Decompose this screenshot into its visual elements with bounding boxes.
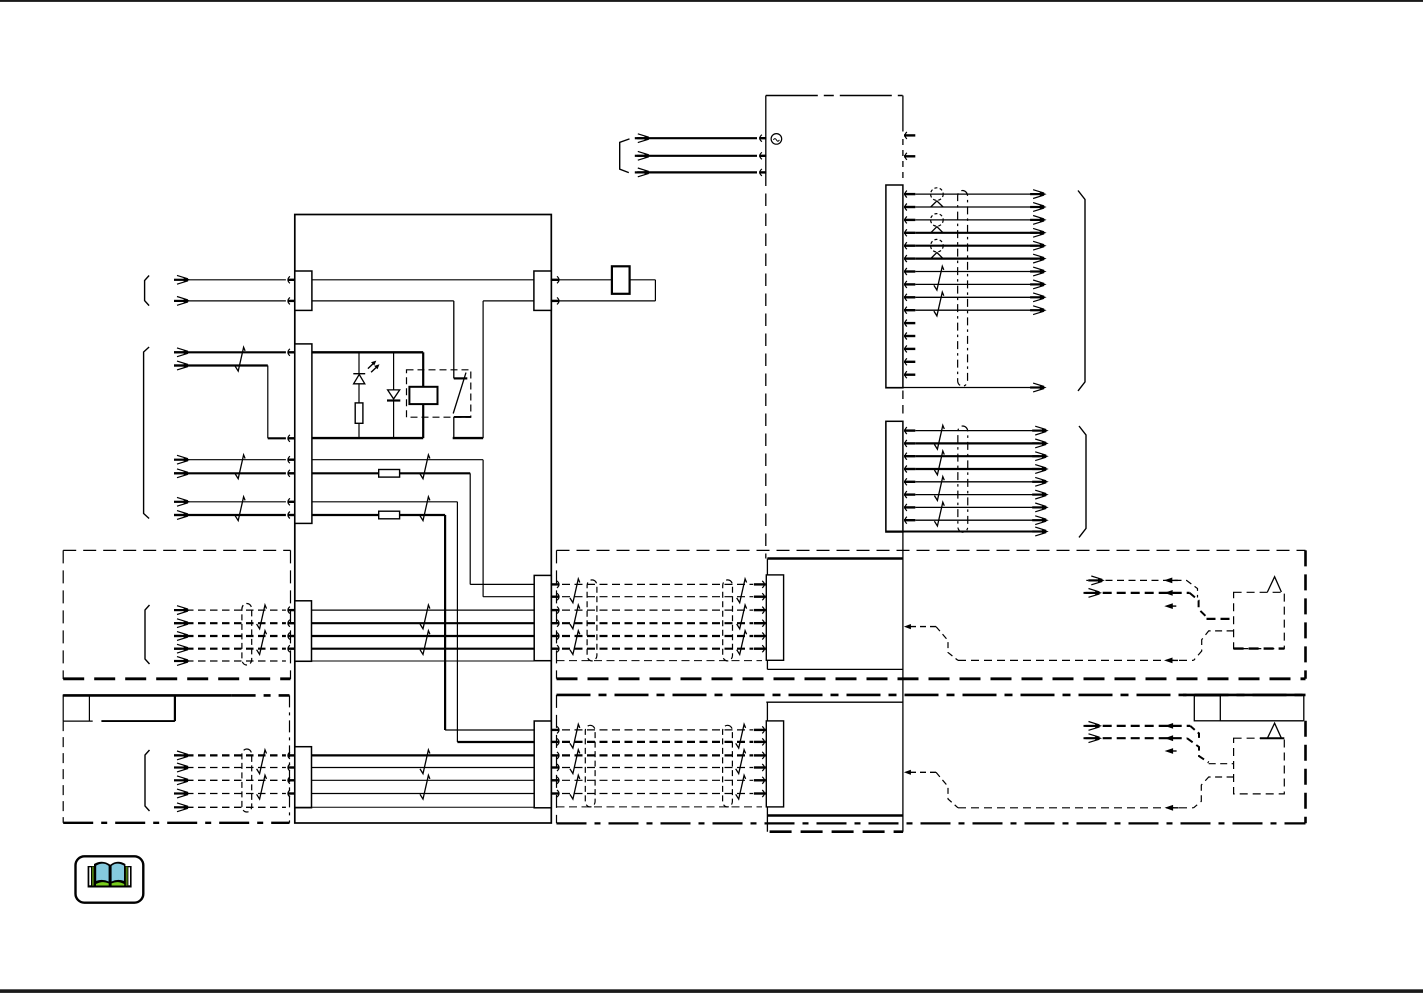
fuse F1 out	[630, 279, 656, 281]
middle unit left edge lower	[766, 702, 768, 832]
shield oval cable lower R	[723, 725, 733, 807]
lamp fan wire 7	[915, 271, 1037, 273]
wire pair1-1	[174, 279, 286, 281]
brace field low	[145, 750, 150, 811]
LED emission arrow 2	[371, 367, 377, 372]
rc upper wire A bend	[1187, 580, 1198, 597]
relay contact blade	[453, 373, 466, 414]
slash rows12	[420, 455, 430, 479]
lamp fan wire 1	[915, 193, 1037, 195]
slash fan2	[934, 502, 944, 526]
connector CNm2	[766, 721, 783, 807]
pin CN7-3	[557, 752, 559, 759]
slash low34	[420, 775, 430, 799]
rc lower exit wire	[1194, 777, 1234, 808]
slash cable upper L	[570, 631, 580, 655]
cable lower wire 6	[562, 793, 753, 795]
section boundary dashdot right	[557, 694, 1306, 697]
indicator lamp H1	[931, 188, 944, 201]
brace pair1	[145, 276, 150, 306]
tab bottom right	[101, 720, 174, 722]
section boundary solid segment over tab	[1183, 694, 1306, 697]
connector CN2	[295, 344, 312, 524]
wire pair3-2	[174, 472, 286, 474]
shield low inside	[295, 806, 534, 808]
right section left edge lower	[556, 695, 558, 823]
field wire mid-4	[174, 648, 286, 650]
shield oval field low	[242, 749, 252, 812]
diode branch lower	[393, 401, 395, 439]
field box lower-left top dashdot	[232, 694, 290, 697]
relay K1 coil feed	[422, 352, 424, 387]
relay contact top bar	[454, 377, 468, 379]
AC wire L	[637, 137, 757, 139]
connector CN1	[295, 271, 312, 310]
wire row4 left	[312, 514, 379, 516]
rc upper wire B mate arrow	[1164, 590, 1173, 596]
slash fan2	[934, 451, 944, 475]
cable upper wire 5	[562, 635, 753, 637]
brace field mid	[145, 605, 150, 664]
pin CNa-7	[905, 268, 907, 275]
slash fan910	[934, 292, 944, 316]
cable upper wire 4	[562, 622, 753, 624]
fan2 wire 5	[915, 481, 1039, 483]
shield oval cable upper R	[723, 580, 733, 661]
pin CNm2-5	[754, 779, 766, 781]
pin CN7-5	[557, 777, 559, 784]
LED emission arrow 1	[368, 363, 374, 368]
pin CNa-11	[905, 320, 907, 327]
CNa shield wire	[886, 387, 1038, 389]
pin CN1-1	[288, 276, 290, 283]
pin CNm1-2	[754, 596, 766, 598]
lamp fan wire 5	[915, 245, 1037, 247]
slash mid34	[420, 631, 430, 655]
rc upper stub arrow	[1164, 603, 1173, 609]
pin CN2-5	[288, 498, 290, 505]
wire pair2-2 drop	[267, 366, 269, 439]
unit1 right edge dashes	[902, 139, 904, 183]
pin CNa-9	[905, 294, 907, 301]
fan2 wire 8	[915, 519, 1039, 521]
slash fan78	[934, 266, 944, 290]
rc lower shield arrow	[1165, 805, 1174, 811]
slash field low12	[257, 750, 267, 774]
pin CNb-6	[905, 491, 907, 498]
field box upper-left left edge	[62, 550, 64, 679]
pin CN3-1	[288, 607, 290, 614]
field box upper-left top edge	[63, 549, 290, 551]
middle unit heavy top	[767, 557, 903, 560]
wire row2 left	[312, 472, 379, 474]
field box upper-left right edge	[290, 550, 292, 679]
rc upper wire B tail	[1084, 592, 1087, 594]
middle unit left edge upper	[766, 559, 768, 670]
lamp fan wire 8	[915, 283, 1037, 285]
wire low2	[312, 767, 535, 769]
rc upper exit wire	[1194, 631, 1234, 661]
pin CN4-2	[288, 764, 290, 771]
pin CNa-8	[905, 281, 907, 288]
connector CN5	[534, 271, 551, 310]
pin CN5-1	[557, 276, 559, 283]
unit1 edge pin out1	[905, 132, 907, 139]
unit1 left edge solid	[765, 96, 767, 174]
rc lower wire A tail	[1084, 725, 1087, 727]
LED branch lower	[358, 384, 360, 403]
wire CN1-2 to switch	[312, 300, 454, 302]
wire pair4-1	[174, 501, 286, 503]
rc lower right edge solid	[1303, 696, 1305, 721]
bottom boundary dashdot right	[557, 822, 1306, 824]
right section right edge heavy upper	[1304, 550, 1307, 678]
bracket CNa	[1078, 191, 1085, 391]
tab divider vertical	[88, 695, 90, 721]
rc lower entry wire	[1209, 763, 1234, 765]
AC wire N	[637, 155, 757, 157]
section boundary heavy dash right	[557, 677, 1306, 680]
connector CNa	[886, 185, 903, 388]
rc upper link from unit	[904, 624, 911, 629]
shield oval CNa	[958, 191, 968, 387]
field wire low-5	[174, 806, 286, 808]
field wire low-4	[174, 793, 286, 795]
rc upper wire A mate arrow	[1164, 578, 1173, 584]
fan2 wire 6	[915, 494, 1039, 496]
shield mid inside	[295, 660, 534, 662]
pin CNb-3	[905, 453, 907, 460]
rc lower wire A	[1086, 725, 1098, 727]
slash cable upper R	[737, 605, 747, 629]
wire row3 to CN7-2	[457, 741, 534, 743]
rc lower small box	[1194, 696, 1220, 721]
pin CNa-4	[905, 229, 907, 236]
slash cable lower L	[570, 750, 580, 774]
cable lower wire 1	[562, 729, 753, 731]
field wire low-1	[174, 754, 286, 756]
pin CNm1-6	[754, 648, 766, 650]
CNb shield wire	[886, 531, 1040, 533]
cable upper wire 3	[562, 609, 753, 611]
control board outline	[295, 215, 552, 824]
slash cable lower L	[570, 724, 580, 748]
pin CNa-2	[905, 204, 907, 211]
wire pair2-1	[174, 351, 286, 353]
rc lower wire B mate arrow	[1165, 735, 1174, 741]
pin CN2-6	[288, 512, 290, 519]
CNb shield left drop	[885, 421, 887, 531]
pin CNa-15	[905, 371, 907, 378]
pin CNa-12	[905, 333, 907, 340]
wire row2 to CN6-1	[470, 583, 534, 585]
relay contact lower lead	[453, 417, 455, 438]
pin CN4-3	[288, 777, 290, 784]
wire row4 right	[400, 514, 446, 516]
pin CNa-3	[905, 216, 907, 223]
AC source symbol	[771, 134, 782, 145]
slash cable lower R	[736, 750, 746, 774]
pin CN6-3	[557, 607, 559, 614]
connector CN7	[534, 721, 551, 808]
wire mid2	[312, 622, 535, 624]
wire pair2-2	[174, 364, 268, 366]
wire low1	[312, 754, 535, 756]
cable lower shield	[557, 806, 763, 808]
rc lower stub arrow	[1165, 748, 1174, 754]
pin CNb-5	[905, 478, 907, 485]
cable lower wire 5	[562, 779, 753, 781]
tab right edge	[174, 695, 176, 721]
pin CNm2-6	[754, 792, 766, 794]
opto bottom rail	[312, 437, 423, 439]
pin CNa-6	[905, 255, 907, 262]
lamp fan wire 6	[915, 258, 1037, 260]
rc lower wire A bend	[1190, 726, 1199, 742]
connector CNb	[886, 421, 903, 532]
wire row3	[312, 501, 458, 503]
pin CN4-1	[288, 752, 290, 759]
pin CNm1-5	[754, 635, 766, 637]
indicator lamp H3	[931, 239, 944, 252]
connector CNm1	[766, 575, 783, 660]
fan2 wire 7	[915, 506, 1039, 508]
pin AC-3	[760, 169, 762, 176]
diode D2 triangle	[388, 390, 400, 399]
pin CN4-4	[288, 790, 290, 797]
cable upper wire 6	[562, 648, 753, 650]
field box lower-left left edge solid	[62, 695, 64, 722]
pin CN3-3	[288, 633, 290, 640]
slash rows34	[420, 497, 430, 521]
unit1+unit2 right edge	[902, 532, 904, 832]
opto top rail	[312, 351, 423, 353]
cable upper wire 2	[562, 596, 753, 598]
middle unit dashed bottom	[770, 830, 904, 833]
wire mid3	[312, 635, 535, 637]
tab bottom left	[63, 720, 92, 722]
field box lower-left left edge dashed	[62, 721, 64, 823]
wire CN5-1 out	[559, 279, 612, 281]
shield oval cable lower L	[585, 725, 595, 807]
pin CNm2-2	[754, 741, 766, 743]
riser row2	[469, 473, 471, 584]
field box lower-left right edge	[289, 695, 291, 822]
slash cable lower L	[570, 775, 580, 799]
right section right edge heavy lower	[1304, 721, 1307, 823]
unit1 edge pin out2	[905, 153, 907, 160]
pin AC-1	[760, 135, 762, 142]
resistor R1	[355, 403, 363, 423]
slash pair2	[235, 347, 245, 371]
field wire mid-5	[174, 660, 286, 662]
wire mid4	[312, 648, 535, 650]
lamp fan wire 4	[915, 232, 1037, 234]
pin CN6-6	[557, 645, 559, 652]
slash mid12	[420, 605, 430, 629]
fan2 wire 1	[915, 430, 1039, 432]
pin CN7-6	[557, 790, 559, 797]
rc upper wire A tail	[1086, 579, 1089, 581]
book icon button	[76, 856, 144, 902]
pin CNm1-4	[754, 622, 766, 624]
unit1 left edge dashed	[765, 174, 767, 559]
remote controller B antenna	[1267, 723, 1281, 738]
pin CNb-2	[905, 440, 907, 447]
pin CN6-5	[557, 633, 559, 640]
switch return riser	[482, 301, 484, 438]
rc upper wire B bend	[1190, 593, 1207, 617]
field box lower-left top heavy	[63, 694, 231, 697]
rc upper entry wire	[1207, 618, 1234, 620]
LED D1 triangle	[354, 374, 365, 383]
page bottom border bar	[0, 989, 1423, 993]
pin CN5-2	[557, 297, 559, 304]
book icon	[88, 862, 132, 888]
relay contact bottom bar	[454, 416, 471, 418]
slash low12	[420, 750, 430, 774]
field wire mid-1	[174, 609, 286, 611]
unit1 top edge	[766, 95, 903, 97]
relay K1 coil return	[422, 404, 424, 438]
pin CN6-1	[557, 581, 559, 588]
rc upper shield run	[958, 659, 1194, 661]
pin CN3-4	[288, 645, 290, 652]
pin CNm1-1	[754, 583, 766, 585]
resistor R3	[379, 511, 400, 519]
riser row3	[456, 502, 458, 742]
pin CNb-7	[905, 504, 907, 511]
wire low3	[312, 779, 535, 781]
slash cable upper L	[570, 579, 580, 603]
pin CNa-13	[905, 345, 907, 352]
pin CNm2-1	[754, 729, 766, 731]
connector CN4	[295, 747, 312, 808]
slash cable upper R	[737, 631, 747, 655]
relay K1 dashed box	[407, 370, 471, 417]
pin CNm1-3	[754, 609, 766, 611]
rc upper wire A	[1088, 579, 1100, 581]
rc upper shield arrow	[1164, 658, 1173, 664]
middle unit sub-box divider	[767, 668, 903, 670]
lamp fan wire 10	[915, 309, 1037, 311]
middle unit heavy bottom	[767, 814, 903, 817]
unit1 right edge gap dash	[902, 391, 904, 420]
fuse loop return	[559, 300, 656, 302]
lamp fan wire 2	[915, 206, 1037, 208]
field wire low-3	[174, 779, 286, 781]
brace tall	[144, 347, 150, 519]
wire row4 to CN7-1	[445, 729, 534, 731]
wire mid1	[312, 609, 535, 611]
diode branch upper	[393, 353, 395, 391]
pin CNa-5	[905, 242, 907, 249]
field wire mid-2	[174, 622, 286, 624]
slash pair4	[235, 497, 245, 521]
wire row2 right	[400, 472, 471, 474]
bracket CNb	[1079, 426, 1086, 537]
cable lower wire 3	[562, 754, 753, 756]
resistor R2	[379, 470, 400, 478]
fuse F1	[612, 266, 630, 294]
switch bottom link	[453, 437, 483, 439]
wire pair4-2	[174, 514, 286, 516]
indicator lamp H2	[931, 214, 944, 227]
cable lower wire 4	[562, 767, 753, 769]
pin CN2-3	[288, 456, 290, 463]
rc lower shelf line	[1220, 720, 1304, 722]
remote controller B box	[1234, 738, 1285, 794]
riser row1	[482, 460, 484, 597]
relay K1 coil	[409, 387, 437, 404]
cable upper shield	[557, 660, 763, 662]
rc lower link from unit	[904, 770, 911, 775]
rc lower wire B tail	[1084, 737, 1087, 739]
lamp fan wire 9	[915, 296, 1037, 298]
wire pair2-2 run	[268, 437, 286, 439]
LED branch upper	[358, 353, 360, 374]
cable upper wire 1	[562, 583, 753, 585]
rc lower wire B bend	[1187, 738, 1209, 762]
fan2 wire 3	[915, 455, 1039, 457]
rc lower wire B	[1086, 737, 1098, 739]
wire low4	[312, 793, 535, 795]
slash cable lower R	[736, 775, 746, 799]
wire switch return	[483, 300, 534, 302]
pin CNa-14	[905, 358, 907, 365]
pin CNb-1	[905, 427, 907, 434]
remote controller A heavy bottom	[1234, 647, 1285, 649]
connector CN3	[295, 601, 312, 662]
brace AC	[620, 139, 630, 173]
pin CN7-2	[557, 738, 559, 745]
pin CN1-2	[288, 297, 290, 304]
pin CNb-8	[905, 517, 907, 524]
section boundary heavy dash left	[63, 677, 290, 680]
riser row4	[444, 515, 446, 730]
fan2 wire 4	[915, 468, 1039, 470]
wire row1 to CN6-2	[483, 596, 534, 598]
wire pair3-1	[174, 459, 286, 461]
pin CNb-4	[905, 466, 907, 473]
shield oval field mid	[242, 604, 252, 666]
shield oval cable upper L	[587, 580, 597, 661]
pin CNa-1	[905, 191, 907, 198]
rc lower shield run	[958, 807, 1194, 809]
slash cable upper L	[570, 605, 580, 629]
pin CN6-4	[557, 620, 559, 627]
wire pair1-2	[174, 300, 286, 302]
shield oval CNb	[958, 426, 968, 532]
right section left edge upper	[556, 550, 558, 678]
diode D2 cathode bar	[387, 399, 400, 401]
fan2 wire 2	[915, 442, 1039, 444]
LED D1 cathode bar	[353, 373, 365, 375]
pin CN2-2	[288, 435, 290, 442]
rc lower wire A mate arrow	[1165, 723, 1174, 729]
pin AC-2	[760, 152, 762, 159]
right section top dashed	[557, 549, 1306, 551]
wire CN1-1 to CN5-1	[312, 279, 534, 281]
slash field mid12	[257, 605, 267, 629]
page top border bar	[0, 0, 1423, 2]
AC wire E	[637, 171, 757, 173]
remote controller A box	[1234, 592, 1285, 648]
connector CN6	[534, 575, 551, 660]
remote controller A antenna	[1267, 577, 1281, 592]
rc upper wire B	[1086, 592, 1098, 594]
relay contact feed	[453, 301, 455, 379]
